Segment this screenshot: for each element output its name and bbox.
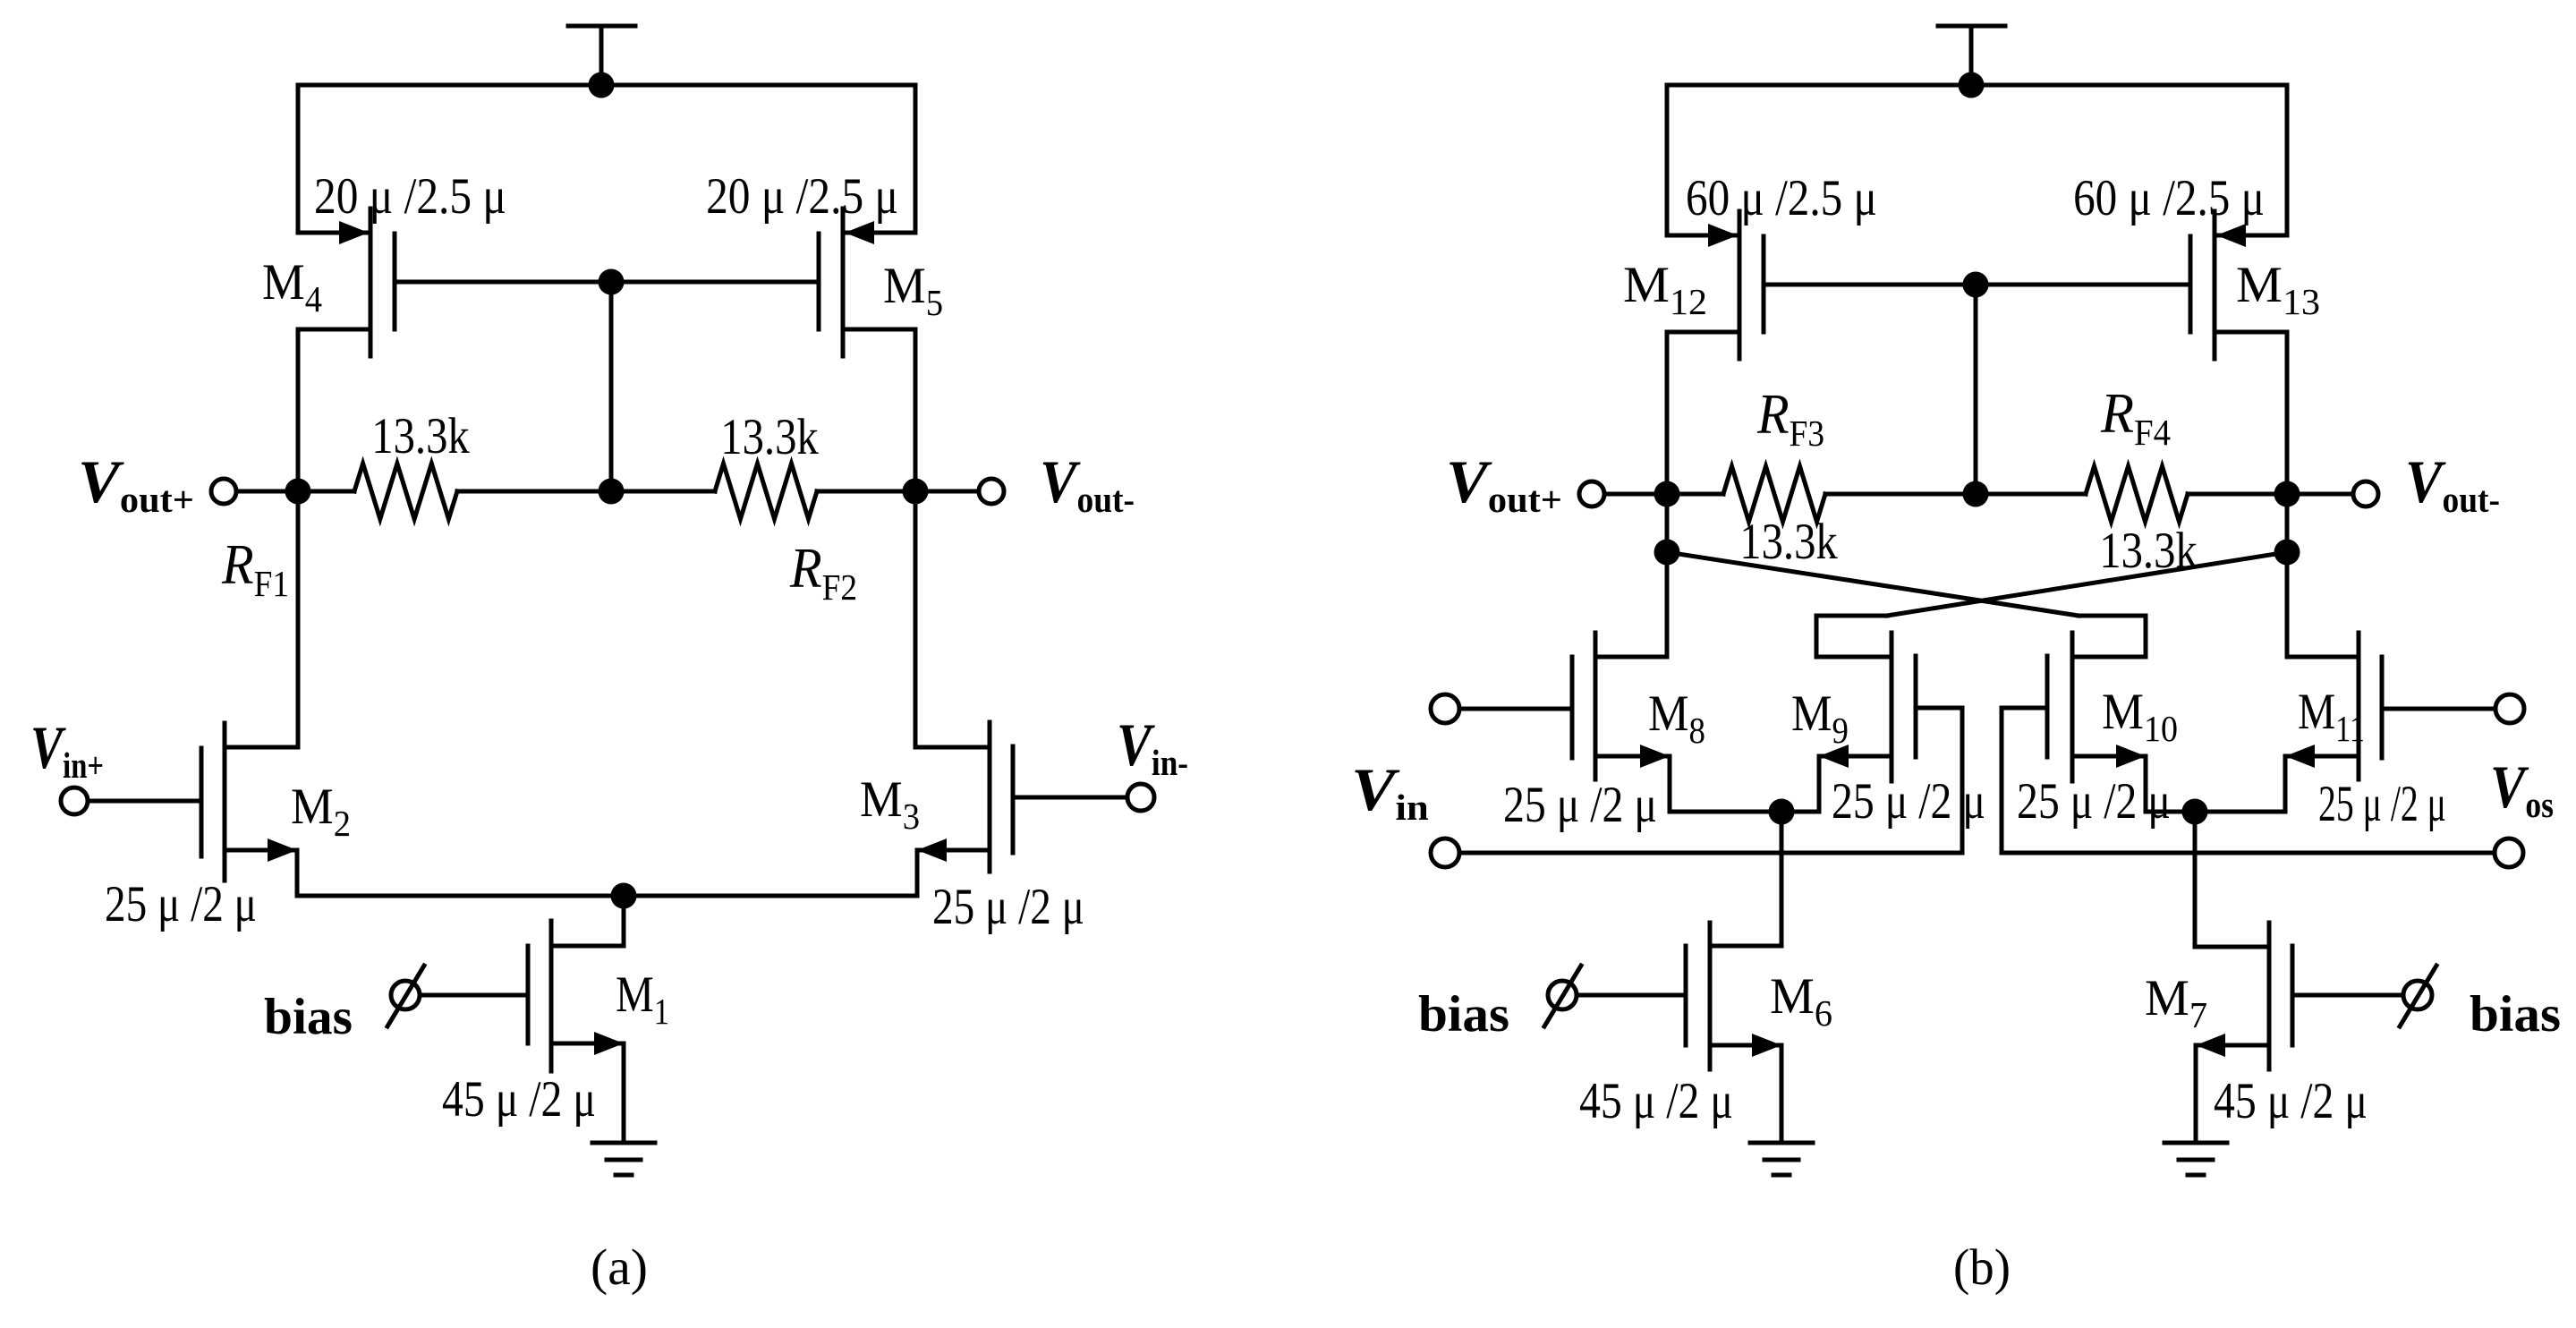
- svg-text:25 μ /2 μ: 25 μ /2 μ: [932, 879, 1084, 935]
- svg-text:M4: M4: [262, 254, 322, 320]
- svg-text:20 μ /2.5 μ: 20 μ /2.5 μ: [314, 167, 506, 225]
- svg-text:RF3: RF3: [1756, 383, 1824, 455]
- svg-text:Vout+: Vout+: [78, 447, 194, 521]
- svg-text:M1: M1: [616, 966, 669, 1032]
- svg-text:M12: M12: [1623, 258, 1707, 322]
- svg-text:Vout+: Vout+: [1446, 447, 1562, 521]
- svg-text:M11: M11: [2298, 684, 2365, 750]
- svg-text:Vos: Vos: [2490, 753, 2554, 825]
- svg-text:M6: M6: [1770, 969, 1832, 1034]
- svg-text:M7: M7: [2145, 971, 2207, 1035]
- svg-text:45 μ /2 μ: 45 μ /2 μ: [1579, 1073, 1733, 1129]
- svg-text:13.3k: 13.3k: [371, 409, 470, 464]
- svg-text:M8: M8: [1648, 685, 1705, 752]
- svg-text:bias: bias: [2470, 985, 2561, 1043]
- svg-text:Vin-: Vin-: [1117, 711, 1188, 784]
- svg-text:M5: M5: [883, 258, 943, 324]
- svg-text:(a): (a): [591, 1239, 648, 1296]
- svg-text:Vout-: Vout-: [1040, 448, 1135, 520]
- svg-text:25 μ /2 μ: 25 μ /2 μ: [2318, 775, 2446, 832]
- svg-text:RF2: RF2: [789, 537, 857, 609]
- svg-text:13.3k: 13.3k: [2099, 524, 2198, 579]
- svg-text:45 μ /2 μ: 45 μ /2 μ: [2214, 1073, 2368, 1129]
- svg-text:M2: M2: [291, 779, 351, 845]
- svg-text:Vin+: Vin+: [30, 714, 104, 787]
- svg-text:60 μ /2.5 μ: 60 μ /2.5 μ: [2073, 170, 2265, 226]
- svg-text:Vin: Vin: [1351, 757, 1429, 829]
- svg-text:M3: M3: [860, 771, 920, 838]
- svg-text:M9: M9: [1791, 685, 1849, 752]
- svg-text:(b): (b): [1953, 1239, 2011, 1296]
- svg-text:25 μ /2 μ: 25 μ /2 μ: [2017, 773, 2171, 830]
- svg-text:RF1: RF1: [221, 533, 289, 605]
- svg-text:25 μ /2 μ: 25 μ /2 μ: [1832, 773, 1985, 830]
- svg-text:bias: bias: [264, 989, 353, 1045]
- svg-text:RF4: RF4: [2100, 382, 2171, 454]
- svg-text:M10: M10: [2102, 683, 2178, 749]
- svg-text:60 μ /2.5 μ: 60 μ /2.5 μ: [1686, 170, 1877, 226]
- svg-text:13.3k: 13.3k: [1739, 515, 1838, 570]
- svg-text:bias: bias: [1418, 985, 1509, 1043]
- svg-text:M13: M13: [2236, 258, 2320, 322]
- svg-text:25 μ /2 μ: 25 μ /2 μ: [105, 876, 257, 932]
- svg-text:13.3k: 13.3k: [720, 410, 819, 465]
- svg-text:Vout-: Vout-: [2405, 448, 2500, 520]
- svg-text:25 μ /2 μ: 25 μ /2 μ: [1503, 777, 1657, 833]
- svg-text:45 μ /2 μ: 45 μ /2 μ: [442, 1071, 596, 1128]
- svg-text:20 μ /2.5 μ: 20 μ /2.5 μ: [706, 167, 898, 225]
